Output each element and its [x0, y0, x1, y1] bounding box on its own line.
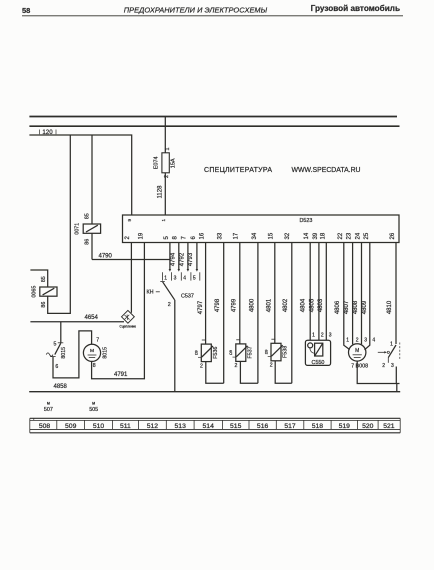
svg-text:34: 34	[252, 232, 258, 239]
sensor C550	[305, 333, 331, 366]
svg-text:32: 32	[285, 232, 291, 239]
bus line 2	[29, 125, 399, 127]
svg-text:86: 86	[41, 302, 47, 308]
wire 0071 pin86	[91, 233, 93, 259]
svg-text:Сцепление: Сцепление	[120, 325, 137, 329]
svg-text:16: 16	[200, 232, 206, 239]
svg-text:521: 521	[383, 423, 395, 430]
svg-text:0065: 0065	[31, 286, 37, 298]
wire D523 pin2 to diamond	[130, 243, 132, 313]
svg-text:ПРЕДОХРАНИТЕЛИ И ЭЛЕКТРОСХЕМЫ: ПРЕДОХРАНИТЕЛИ И ЭЛЕКТРОСХЕМЫ	[124, 6, 268, 15]
wire 1128	[164, 173, 166, 215]
wire drop x70 from rail	[48, 135, 71, 313]
wire arrowheads into C537	[169, 269, 199, 272]
terminal strip row	[30, 418, 400, 433]
wire 4806 pin22	[344, 243, 350, 350]
pressure switch right	[378, 342, 400, 384]
svg-text:F536: F536	[213, 347, 219, 359]
svg-text:3: 3	[364, 337, 367, 343]
svg-text:512: 512	[147, 423, 159, 430]
svg-text:C537: C537	[181, 293, 194, 299]
wire 4797 pin16	[205, 243, 207, 345]
svg-text:4791: 4791	[114, 372, 128, 378]
svg-text:м: м	[47, 401, 50, 406]
connector diamond clutch	[120, 310, 137, 328]
svg-text:2: 2	[270, 363, 273, 369]
svg-text:0071: 0071	[75, 223, 81, 235]
fuse E074 wire top	[164, 117, 166, 153]
connector C537 cells	[163, 272, 200, 280]
wire 4793 pin6	[196, 243, 198, 270]
bus line 1	[29, 116, 397, 118]
svg-text:25: 25	[364, 232, 370, 239]
svg-text:2: 2	[200, 363, 203, 369]
svg-text:85: 85	[84, 213, 90, 219]
svg-text:M: M	[90, 348, 94, 354]
svg-text:4: 4	[372, 337, 375, 343]
svg-text:5: 5	[54, 342, 57, 348]
svg-text:4808: 4808	[353, 300, 359, 314]
valve F538	[264, 339, 288, 368]
svg-text:4790: 4790	[99, 254, 113, 260]
svg-text:D523: D523	[300, 218, 313, 224]
svg-text:4792: 4792	[180, 252, 186, 266]
svg-text:4809: 4809	[362, 300, 368, 314]
svg-text:9: 9	[127, 219, 132, 222]
svg-text:5: 5	[193, 276, 196, 282]
svg-text:4799: 4799	[231, 298, 237, 312]
svg-text:509: 509	[65, 423, 77, 430]
header rule	[22, 15, 403, 17]
wire 4808 pin24	[361, 243, 363, 345]
wire 4791	[92, 243, 145, 379]
svg-text:м: м	[92, 401, 95, 406]
wire 4809 pin25	[365, 243, 370, 350]
wire 4800 pin34	[257, 243, 259, 384]
svg-text:1: 1	[165, 147, 171, 150]
svg-text:4797: 4797	[198, 300, 204, 314]
svg-text:1: 1	[390, 342, 393, 348]
svg-text:8: 8	[93, 363, 96, 369]
svg-text:513: 513	[175, 423, 187, 430]
svg-text:1: 1	[164, 276, 167, 282]
svg-text:7: 7	[351, 363, 354, 369]
svg-text:F537: F537	[248, 346, 254, 358]
svg-text:4: 4	[183, 276, 186, 282]
node 120 label	[42, 129, 53, 136]
svg-text:507: 507	[44, 407, 53, 413]
svg-text:4793: 4793	[188, 252, 194, 266]
bottom bus	[29, 391, 400, 393]
wire B008 pin7 to bus	[357, 361, 399, 392]
svg-text:4858: 4858	[54, 384, 68, 390]
svg-text:M: M	[355, 348, 359, 354]
svg-text:17: 17	[234, 232, 240, 239]
svg-text:1: 1	[161, 219, 166, 222]
wire F536 pin2	[206, 362, 224, 384]
svg-text:F538: F538	[283, 346, 289, 358]
svg-text:C550: C550	[312, 360, 325, 366]
svg-text:23: 23	[347, 232, 353, 239]
switch KH C537	[147, 282, 194, 309]
wire 4654	[30, 321, 124, 323]
relay 0071	[83, 224, 100, 233]
svg-text:1: 1	[346, 337, 349, 343]
svg-text:1: 1	[312, 333, 315, 339]
svg-text:4801: 4801	[266, 298, 272, 312]
svg-text:4803: 4803	[318, 298, 324, 312]
svg-text:4800: 4800	[249, 298, 255, 312]
valve F537	[229, 340, 253, 369]
svg-text:4654: 4654	[85, 315, 99, 321]
svg-text:WWW.SPECDATA.RU: WWW.SPECDATA.RU	[292, 167, 361, 174]
svg-text:1128: 1128	[158, 185, 164, 199]
svg-text:КН: КН	[147, 290, 154, 296]
svg-text:2: 2	[168, 302, 171, 308]
svg-text:19: 19	[138, 232, 144, 239]
svg-text:505: 505	[89, 407, 98, 413]
wire F538 pin2	[275, 361, 292, 383]
motor 8015	[83, 338, 108, 369]
svg-text:2: 2	[235, 363, 238, 369]
svg-text:3: 3	[329, 333, 332, 339]
svg-text:4806: 4806	[335, 300, 341, 314]
wire 4801 pin15	[274, 243, 276, 344]
rail 120 wire	[29, 135, 131, 215]
wire D523 pin5 to C537 pin1	[169, 243, 171, 270]
svg-text:508: 508	[39, 423, 51, 430]
svg-text:85: 85	[41, 276, 47, 282]
wire 4807 pin23	[352, 243, 354, 345]
wire 4804 pin14	[309, 243, 311, 341]
svg-text:СПЕЦЛИТЕРАТУРА: СПЕЦЛИТЕРАТУРА	[204, 167, 272, 174]
fuse E074	[162, 153, 169, 173]
wire 4798 pin33	[223, 243, 225, 384]
wire 4803 pin18	[325, 243, 327, 341]
svg-text:4807: 4807	[344, 300, 350, 314]
svg-text:E074: E074	[154, 156, 160, 169]
svg-text:Ω9: Ω9	[229, 350, 233, 355]
svg-text:510: 510	[93, 423, 105, 430]
svg-text:58: 58	[22, 6, 30, 15]
connector D523	[123, 215, 400, 243]
ground 507	[44, 401, 53, 413]
svg-text:514: 514	[203, 423, 215, 430]
svg-text:2: 2	[382, 363, 385, 369]
svg-text:2: 2	[321, 333, 324, 339]
svg-text:26: 26	[390, 232, 396, 239]
svg-text:520: 520	[362, 423, 374, 430]
svg-text:519: 519	[339, 423, 351, 430]
svg-text:4810: 4810	[387, 300, 393, 314]
svg-text:6: 6	[55, 364, 58, 370]
switch 8015 tap from 4654	[60, 322, 62, 343]
svg-text:15: 15	[269, 232, 275, 239]
wire 4802 pin32	[291, 243, 293, 384]
svg-text:511: 511	[120, 423, 131, 430]
wire F537 pin2	[240, 361, 258, 383]
svg-text:86: 86	[84, 239, 90, 245]
svg-text:8015: 8015	[61, 347, 67, 359]
svg-text:18: 18	[321, 232, 327, 239]
svg-text:120: 120	[42, 129, 53, 136]
wire 4792 pin7	[187, 243, 189, 270]
svg-text:24: 24	[356, 232, 362, 239]
svg-text:8015: 8015	[103, 347, 109, 359]
svg-text:517: 517	[284, 423, 296, 430]
wire C537 pin2 to bus	[174, 300, 176, 392]
D523 pin ticks and labels	[125, 232, 396, 239]
svg-text:14: 14	[304, 232, 310, 239]
svg-text:4802: 4802	[283, 298, 289, 312]
svg-text:516: 516	[257, 423, 269, 430]
svg-text:15A: 15A	[171, 158, 177, 168]
wire 4790	[92, 259, 170, 261]
svg-text:4805: 4805	[310, 298, 316, 312]
wire 4858	[53, 331, 92, 378]
svg-text:4804: 4804	[301, 298, 307, 312]
ground 505	[89, 401, 98, 413]
svg-text:4798: 4798	[215, 298, 221, 312]
svg-text:3: 3	[174, 276, 177, 282]
relay 0065	[40, 287, 57, 296]
svg-text:515: 515	[230, 423, 242, 430]
svg-text:2: 2	[356, 337, 359, 343]
svg-text:Ω9: Ω9	[195, 350, 199, 355]
wire 4799 pin17	[239, 243, 241, 344]
svg-text:33: 33	[218, 232, 224, 239]
svg-text:Грузовой автомобиль: Грузовой автомобиль	[311, 3, 400, 13]
svg-text:4794: 4794	[170, 252, 176, 266]
wire 0065 pin85	[30, 270, 47, 287]
wire 4805 pin39	[318, 243, 320, 341]
motor B008	[346, 337, 375, 369]
wire 4794 pin8	[178, 243, 180, 270]
switch 8015	[46, 342, 67, 370]
svg-text:22: 22	[338, 232, 344, 239]
wire drop x92 from rail	[91, 135, 93, 224]
svg-text:Ω9: Ω9	[264, 350, 268, 355]
svg-text:3: 3	[391, 363, 394, 369]
wire 4810 pin26	[395, 243, 397, 345]
svg-text:7: 7	[96, 338, 99, 344]
svg-text:518: 518	[312, 423, 324, 430]
valve F536	[195, 340, 219, 369]
svg-text:39: 39	[313, 232, 319, 239]
